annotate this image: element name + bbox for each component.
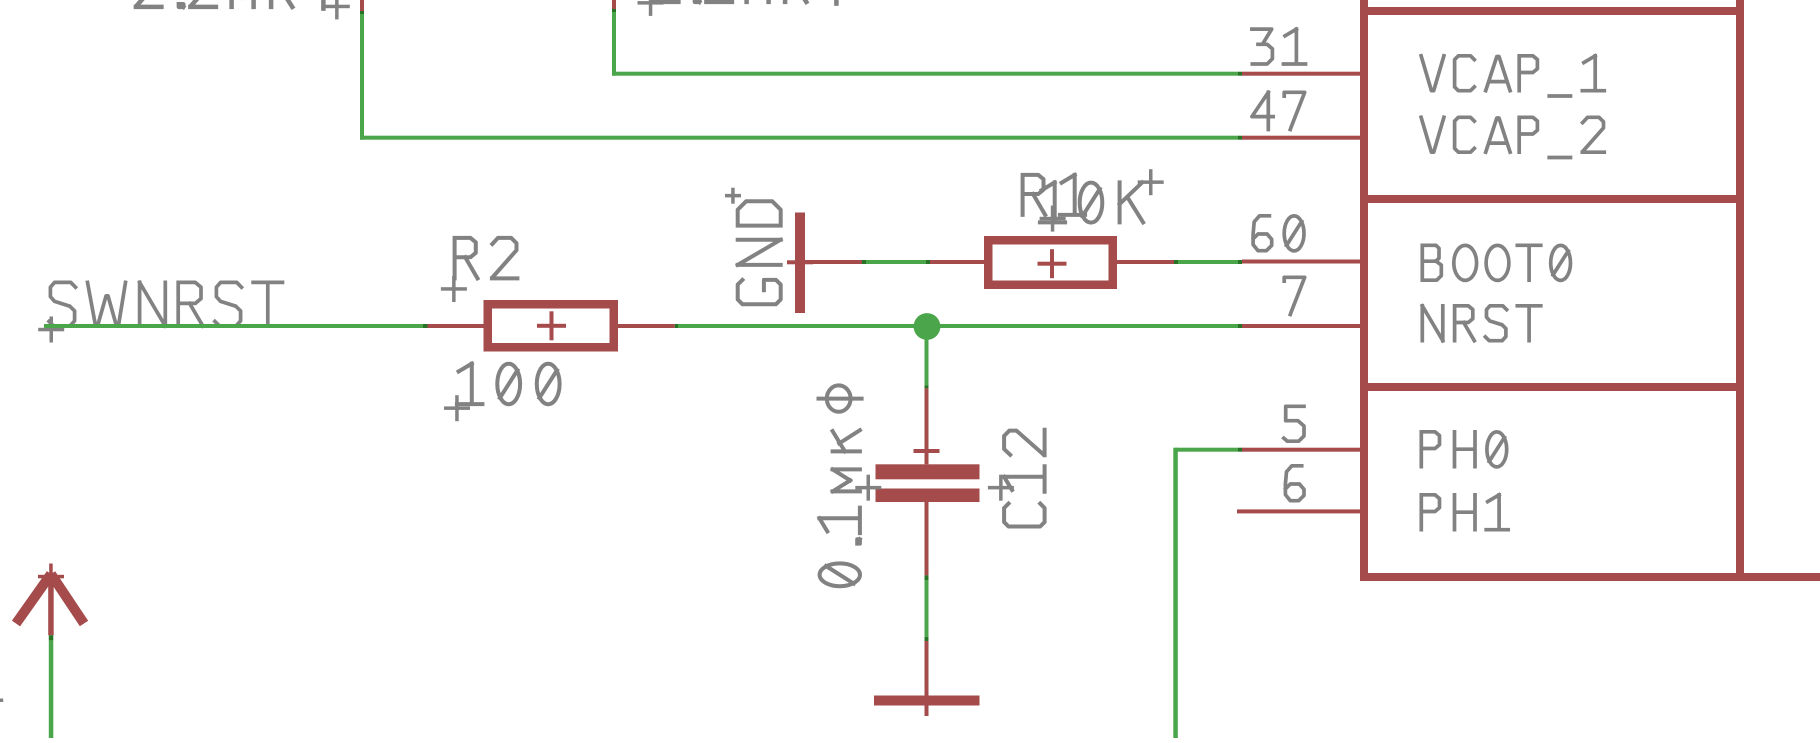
text origin cross left capacitor value	[324, 5, 350, 9]
text origin cross right capacitor value	[638, 1, 664, 5]
pin origin cross C12 top	[914, 449, 940, 453]
origin cross R1	[1038, 262, 1067, 266]
text origin cross GND label	[725, 194, 741, 198]
pin number 47	[1252, 92, 1305, 129]
wire net C12 to ground	[925, 575, 929, 580]
pin name BOOT0	[1422, 245, 1568, 280]
pin name NRST	[1422, 306, 1541, 341]
value label 0.1uF (rotated)	[819, 399, 862, 584]
ground symbol GND near BOOT0 (rotated)	[787, 260, 813, 264]
capacitor C12	[925, 388, 929, 464]
pin stub top-right capacitor	[612, 0, 616, 9]
text origin cross R2 name	[441, 287, 467, 291]
net label SWNRST	[49, 282, 283, 326]
IC U1 box outline	[1360, 0, 1368, 581]
name label C12 (rotated)	[1004, 430, 1045, 527]
wire net from power arrow down	[49, 635, 54, 640]
IC U1 pin 5 line	[1242, 448, 1364, 452]
pin number 5	[1284, 406, 1304, 441]
wire net R1 to pin 60	[1174, 260, 1178, 264]
cut-off gray text fragment at left edge	[0, 699, 3, 703]
value label 2.2uF (cut off) left capacitor	[136, 0, 337, 9]
wire net N$8 vertical from C? to VCAP_1	[612, 12, 616, 76]
origin cross R2	[537, 324, 566, 328]
wire net N$9 vertical from C? to VCAP_2	[360, 13, 364, 140]
resistor R2	[428, 324, 484, 328]
text origin cross SWNRST	[38, 328, 64, 332]
IC U1 pin 6 line (unconnected)	[1237, 509, 1364, 513]
ground symbol GND below C12	[925, 641, 929, 696]
text origin cross 0.1uF value	[855, 486, 881, 490]
pin number 6	[1285, 466, 1304, 501]
wire net PH0 from pin 5 down	[1176, 448, 1238, 452]
wire net to pin 47 horizontal	[360, 136, 1238, 140]
label GND (rotated)	[738, 201, 781, 304]
text origin cross 100 value	[444, 406, 470, 410]
pin stub top-left capacitor	[360, 0, 364, 11]
IC U1 pin 7 line	[1242, 324, 1364, 328]
pin name VCAP_2	[1421, 117, 1604, 157]
wire net SWNRST middle segment to junction and pin 7	[675, 324, 679, 328]
pin number 7	[1284, 277, 1305, 314]
junction dot on SWNRST net	[914, 313, 941, 340]
pin number 31	[1252, 29, 1306, 64]
IC U1 pin 60 line	[1242, 260, 1364, 264]
text origin cross R1/10K	[1040, 217, 1066, 221]
value label 2.2uF (cut off) right capacitor	[653, 0, 850, 4]
name label R1 (overlapping value)	[1023, 175, 1086, 215]
power arrow symbol (VCC) bottom left	[16, 574, 51, 624]
wire net SWNRST left segment	[44, 324, 423, 328]
pin name PH0	[1421, 432, 1504, 467]
text origin cross right of 10K	[1138, 180, 1164, 184]
resistor R1	[930, 260, 984, 264]
IC U1 pin 47 line	[1242, 136, 1364, 140]
name label R2	[455, 238, 518, 279]
pin number 60	[1253, 216, 1302, 251]
wire net junction down to C12	[925, 326, 929, 385]
value label 100	[457, 364, 557, 405]
origin cross power arrow	[38, 575, 64, 579]
pin name VCAP_1	[1421, 56, 1604, 96]
wire net GND to R1	[862, 260, 866, 264]
pin name PH1	[1421, 495, 1508, 530]
text origin cross C12 name	[988, 486, 1014, 490]
value label 10K (overlapping name)	[1040, 182, 1143, 222]
wire net to pin 31 horizontal	[612, 72, 1238, 76]
IC U1 pin 31 line	[1242, 72, 1364, 76]
